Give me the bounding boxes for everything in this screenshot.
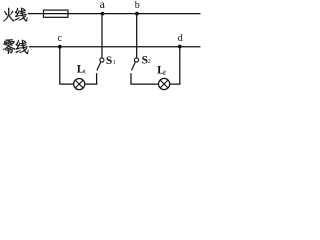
svg-text:S: S — [106, 55, 112, 67]
wire: neutral wire horizontal — [29, 46, 201, 48]
lamp L1 (circle with X) — [74, 79, 85, 90]
label "火线" (live wire) — [3, 8, 27, 22]
svg-text:2: 2 — [148, 59, 151, 65]
lamp L2 (circle with X) — [159, 78, 170, 89]
wire: switch S2 bottom to lamp L2 — [130, 83, 158, 85]
node d (junction dot) — [178, 45, 182, 49]
svg-text:a: a — [100, 0, 106, 11]
wire: bottom left horizontal to lamp L1 — [59, 83, 73, 85]
node c (junction dot) — [58, 45, 62, 49]
wire: vertical from node c down — [59, 47, 61, 84]
svg-text:1: 1 — [83, 69, 86, 75]
svg-text:c: c — [58, 33, 63, 44]
wire: lamp L1 to switch S1 bottom terminal — [85, 83, 97, 85]
node a (junction dot) — [101, 12, 105, 16]
svg-text:2: 2 — [163, 71, 166, 77]
wire: switch S1 up to node a — [101, 14, 103, 58]
wire: lamp L2 to right vertical — [170, 83, 181, 85]
node b (junction dot) — [135, 12, 139, 16]
wire: live wire from label to fuse — [28, 13, 44, 15]
label "零线" (neutral wire) — [3, 39, 28, 54]
svg-text:1: 1 — [113, 60, 116, 66]
switch S2 (open knife switch) — [131, 58, 139, 84]
switch S1 (open knife switch) — [97, 58, 104, 84]
wire: vertical from node b down to switch S2 — [136, 14, 138, 58]
wire: vertical up to node d — [179, 47, 181, 84]
svg-text:b: b — [135, 0, 140, 11]
svg-text:d: d — [178, 33, 183, 44]
fuse FU (rectangle with wire through) — [44, 10, 69, 17]
wire: live wire from fuse to right edge — [68, 13, 201, 15]
